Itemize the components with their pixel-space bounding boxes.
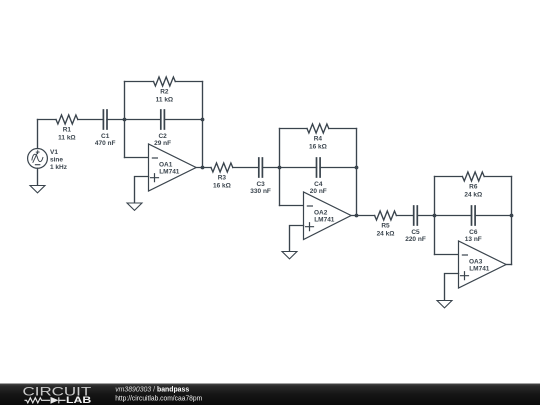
wire node A to C2 <box>125 119 161 121</box>
svg-text:http://circuitlab.com/caa78pm: http://circuitlab.com/caa78pm <box>115 393 202 402</box>
svg-text:OA3: OA3 <box>469 258 483 265</box>
svg-text:V1: V1 <box>50 149 58 156</box>
wire C3 to node D <box>262 167 279 169</box>
label OA2 LM741 <box>314 209 335 223</box>
wire top feedback right segment stage 1 <box>175 81 202 83</box>
label R2 value <box>156 89 174 104</box>
op-amp OA2 <box>304 192 352 240</box>
footer logo resistor-diode glyph <box>25 397 66 403</box>
label C5 value <box>405 229 426 243</box>
svg-text:LM741: LM741 <box>469 266 490 273</box>
label R4 value <box>309 136 327 151</box>
node C (OA1 output junction) <box>201 166 205 170</box>
svg-text:11 kΩ: 11 kΩ <box>58 135 76 142</box>
node B (C2/feedback junction) <box>201 118 205 122</box>
wire right vertical stage 3 <box>511 177 513 265</box>
svg-text:R4: R4 <box>314 136 323 143</box>
svg-text:1 kHz: 1 kHz <box>50 164 68 171</box>
svg-text:C2: C2 <box>158 133 167 140</box>
capacitor C1 <box>103 110 107 129</box>
voltage source V1 <box>28 149 48 169</box>
resistor R4 <box>307 124 329 133</box>
capacitor C6 <box>472 206 476 225</box>
wire node G to C6 <box>435 215 472 217</box>
wire R5 to C5 <box>396 215 413 217</box>
wire OA1 output to R3 <box>196 167 211 169</box>
label OA1 LM741 <box>159 161 180 175</box>
svg-text:OA1: OA1 <box>159 161 173 168</box>
svg-text:11 kΩ: 11 kΩ <box>156 97 174 104</box>
wire inverting input OA2 <box>280 205 304 207</box>
pin minus OA2 <box>307 205 312 207</box>
node F (OA2 output junction) <box>355 214 359 218</box>
wire left vertical stage 3 <box>434 177 436 255</box>
wire inverting input OA1 <box>125 157 149 159</box>
wire OA2 output to R5 <box>351 215 375 217</box>
svg-text:24 kΩ: 24 kΩ <box>377 231 395 238</box>
svg-text:220 nF: 220 nF <box>405 236 426 243</box>
svg-text:C1: C1 <box>101 133 110 140</box>
wire right vertical stage 1 <box>202 82 204 168</box>
wire R1 to C1 <box>78 119 104 121</box>
wire OA3 output <box>506 264 511 266</box>
resistor R3 <box>211 163 233 172</box>
resistor R6 <box>462 172 484 181</box>
label V1 sine 1 kHz <box>50 149 68 171</box>
capacitor C2 <box>161 110 165 129</box>
svg-text:sine: sine <box>50 156 63 163</box>
svg-text:C4: C4 <box>314 181 323 188</box>
resistor R2 <box>154 77 176 86</box>
svg-text:C6: C6 <box>469 229 478 236</box>
capacitor C5 <box>414 206 418 225</box>
ground (OA1 non-inverting input) <box>127 203 142 210</box>
label R5 value <box>377 223 395 238</box>
wire C1 to node A <box>107 119 125 121</box>
svg-text:C5: C5 <box>411 229 420 236</box>
svg-text:R2: R2 <box>160 89 169 96</box>
wire C6 to right vertical stage 3 <box>475 215 511 217</box>
label R3 value <box>213 175 231 190</box>
wire node D to C4 <box>280 167 317 169</box>
ground (below V1) <box>30 186 45 193</box>
svg-text:C3: C3 <box>256 181 265 188</box>
op-amp OA3 <box>459 241 507 288</box>
wire top feedback left segment stage 2 <box>280 128 308 130</box>
svg-text:29 nF: 29 nF <box>154 140 171 147</box>
resistor R5 <box>375 211 397 220</box>
label C1 value <box>95 133 116 147</box>
pin plus OA1 <box>151 174 159 182</box>
node G (input junction stage 3) <box>433 214 437 218</box>
pin plus OA2 <box>306 223 314 231</box>
svg-text:16 kΩ: 16 kΩ <box>309 144 327 151</box>
svg-text:LAB: LAB <box>66 395 91 405</box>
svg-text:330 nF: 330 nF <box>250 188 271 195</box>
label C4 value <box>310 181 327 195</box>
wire C2 to right vertical stage 1 <box>164 119 202 121</box>
svg-text:20 nF: 20 nF <box>310 188 327 195</box>
capacitor C3 <box>259 158 263 177</box>
pin minus OA1 <box>152 157 157 159</box>
footer bar <box>0 384 540 405</box>
svg-text:LM741: LM741 <box>314 217 335 224</box>
svg-text:vm3890303 / bandpass: vm3890303 / bandpass <box>115 384 189 393</box>
wire C4 to right vertical stage 2 <box>320 167 356 169</box>
ground (OA3 non-inverting input) <box>437 301 452 308</box>
svg-text:R5: R5 <box>381 223 390 230</box>
resistor R1 <box>56 115 78 124</box>
svg-text:16 kΩ: 16 kΩ <box>213 183 231 190</box>
wire V1 bottom to ground <box>37 168 39 185</box>
svg-text:R1: R1 <box>63 127 72 134</box>
wire row1: V1 to R1 <box>38 119 57 121</box>
pin plus OA3 <box>461 272 469 280</box>
wire V1 top to row1 <box>37 120 39 149</box>
label R6 value <box>464 184 482 199</box>
wire right vertical stage 2 <box>356 129 358 216</box>
label OA3 LM741 <box>469 258 490 272</box>
capacitor C4 <box>317 158 321 177</box>
node A (input junction stage 1) <box>123 118 127 122</box>
svg-text:13 nF: 13 nF <box>465 236 482 243</box>
label C3 value <box>250 181 271 195</box>
wire non-inverting input OA3 <box>445 274 459 301</box>
svg-text:24 kΩ: 24 kΩ <box>464 192 482 199</box>
label C6 value <box>465 229 482 243</box>
label C2 value <box>154 133 171 147</box>
wire left vertical stage 2 <box>279 129 281 206</box>
node D (input junction stage 2) <box>278 166 282 170</box>
node E (C4/feedback junction) <box>355 166 359 170</box>
wire left vertical stage 1 <box>124 82 126 158</box>
wire inverting input OA3 <box>435 254 459 256</box>
op-amp OA1 <box>149 144 197 191</box>
wire non-inverting input OA2 <box>290 226 304 252</box>
wire C5 to node G <box>417 215 434 217</box>
node H (C6/feedback junction) <box>510 214 514 218</box>
ground (OA2 non-inverting input) <box>282 252 297 259</box>
svg-text:OA2: OA2 <box>314 209 328 216</box>
svg-text:R6: R6 <box>469 184 478 191</box>
svg-text:LM741: LM741 <box>159 169 180 176</box>
wire top feedback right segment stage 2 <box>329 128 357 130</box>
pin minus OA3 <box>462 254 467 256</box>
wire top feedback left segment stage 1 <box>125 81 154 83</box>
wire top feedback left segment stage 3 <box>435 176 463 178</box>
wire top feedback right segment stage 3 <box>484 176 511 178</box>
svg-text:470 nF: 470 nF <box>95 140 116 147</box>
svg-text:R3: R3 <box>218 175 227 182</box>
wire non-inverting input OA1 <box>135 177 149 204</box>
wire R3 to C3 <box>233 167 259 169</box>
label R1 value <box>58 127 76 142</box>
